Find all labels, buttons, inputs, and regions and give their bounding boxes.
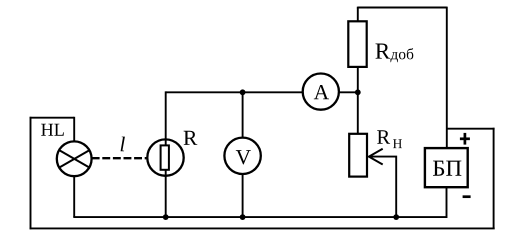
label l (light) xyxy=(121,137,125,152)
plus terminal label xyxy=(460,133,470,145)
node: junction wiper bottom xyxy=(393,214,399,220)
wire photoresistor branch vertical xyxy=(165,91,167,217)
resistor Rдоб xyxy=(348,21,366,67)
wire outer left vertical xyxy=(30,117,32,230)
node: junction V top xyxy=(240,89,246,95)
label Rн xyxy=(377,130,390,143)
wire outer bottom xyxy=(30,227,495,229)
wire Rдоб-Rн branch vertical xyxy=(357,8,359,135)
rheostat Rн xyxy=(349,134,367,177)
node: junction V bottom xyxy=(240,214,246,220)
dashed light ray l xyxy=(92,157,148,159)
wire ammeter horizontal xyxy=(166,91,358,93)
wire lamp top vertical xyxy=(73,117,75,146)
minus terminal label xyxy=(463,195,471,198)
label R xyxy=(184,131,198,145)
wire right upper vertical to БП plus xyxy=(446,7,448,149)
node: junction R bottom xyxy=(163,214,169,220)
wire БП bottom vertical xyxy=(446,187,448,219)
label HL xyxy=(41,124,64,136)
wire voltmeter branch vertical xyxy=(242,92,244,217)
node: junction ammeter right xyxy=(355,89,361,95)
photoresistor R xyxy=(147,139,183,175)
wire outer right vertical xyxy=(493,128,495,229)
power supply БП xyxy=(425,148,468,187)
wire lamp top horizontal xyxy=(30,117,75,119)
label Rдоб xyxy=(376,44,391,59)
rheostat wiper arrow and wire xyxy=(369,149,396,217)
voltmeter V xyxy=(224,138,260,174)
wire lamp bottom vertical xyxy=(73,172,75,218)
wire T-branch horizontal to outer loop xyxy=(447,128,495,130)
ammeter A xyxy=(303,74,339,110)
wire top (Rдоб branch to supply plus) xyxy=(358,6,447,9)
lamp HL xyxy=(57,141,92,176)
wire inner bottom (minus rail) xyxy=(73,216,446,218)
